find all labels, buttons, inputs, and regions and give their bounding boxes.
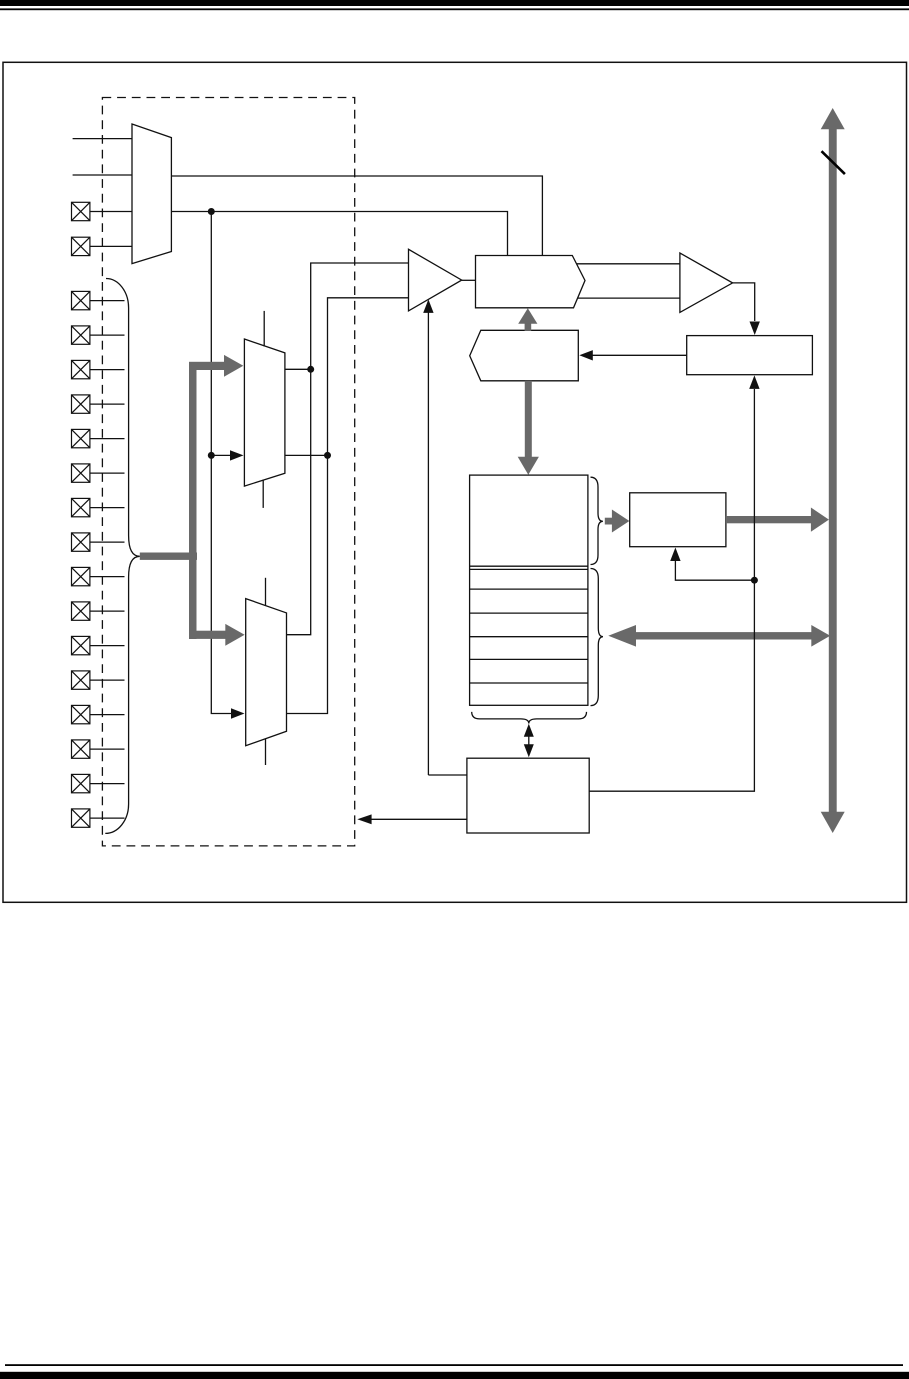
wire control to status register: [589, 389, 754, 791]
pin pad box 5: [72, 360, 125, 378]
arrowhead into mux A lower input: [230, 450, 244, 460]
pin pad box 9: [72, 498, 125, 516]
gray arrow trigger to result stack: [518, 381, 539, 475]
gray double arrow stack to data bus: [608, 625, 830, 647]
dashed module boundary: [102, 98, 354, 846]
page footer thin rule: [5, 1364, 903, 1366]
left pin collection brace: [105, 279, 140, 834]
wire control to buffer enable: [427, 301, 429, 775]
wire mux A output lower: [285, 454, 328, 456]
node dot mux A upper output: [307, 366, 314, 373]
adc core pentagon: [476, 256, 586, 308]
arrowhead into dashed module: [357, 814, 371, 824]
node junction dot mid: [208, 452, 215, 459]
wire input 1 to top mux: [73, 138, 132, 140]
wire adc output lower to comparator: [578, 297, 680, 299]
arrowhead into result register bottom: [670, 548, 680, 562]
brace for top stack cell: [591, 477, 603, 564]
pin pad box 17: [72, 774, 125, 792]
comparator triangle: [680, 253, 733, 312]
wire top mux output upper to pentagon1: [171, 176, 542, 256]
wire status register to trigger pentagon: [592, 354, 687, 356]
node dot on clock line: [751, 577, 758, 584]
page footer thick bar: [0, 1372, 909, 1379]
wire control to module arrow: [370, 818, 467, 820]
arrowhead into status register: [750, 322, 760, 336]
trigger pentagon: [470, 330, 579, 381]
node junction dot on mux output: [208, 208, 215, 215]
pin pad box 2: [72, 237, 90, 255]
arrowhead into trigger pentagon: [579, 350, 593, 360]
pin pad box 1: [72, 202, 90, 220]
brace for lower stack cells: [591, 569, 604, 706]
page header thin rule: [0, 8, 909, 10]
double headed arrow stack to control: [528, 727, 530, 754]
mux A select stub bottom: [262, 480, 264, 508]
wire pin box 2 to top mux: [90, 245, 133, 247]
wire adc output upper to comparator: [577, 263, 680, 265]
wire mux A output upper: [285, 368, 311, 370]
arrowhead up: [524, 724, 534, 737]
pin pad box 8: [72, 464, 125, 482]
mux A trapezoid: [244, 339, 285, 486]
stack row separators: [470, 566, 588, 683]
pin pad box 4: [72, 326, 125, 344]
arrowhead into mux B lower input: [231, 708, 245, 718]
wire vertical channel select line: [211, 212, 240, 714]
gray analog bus from pins: [140, 355, 245, 646]
wire branch to mux A lower input: [211, 454, 240, 456]
node dot mux A lower output: [324, 452, 331, 459]
pin pad box 6: [72, 395, 125, 413]
page header thick bar: [0, 0, 909, 6]
horizontal brace under stack: [472, 712, 587, 724]
gray arrow result register to data bus: [726, 508, 829, 532]
mux B trapezoid: [246, 599, 287, 746]
wire comparator to status register: [733, 283, 755, 321]
control logic rectangle: [467, 758, 589, 833]
wire input 2 to top mux: [73, 174, 132, 176]
result register stack: [470, 475, 588, 705]
status register rectangle: [687, 336, 813, 375]
gray arrow stack to result register: [605, 510, 630, 533]
pin pad box 10: [72, 533, 125, 551]
pin pad box 13: [72, 636, 125, 654]
pin pad box 12: [72, 602, 125, 620]
pin pad box 18: [72, 809, 125, 827]
wire control to buffer enable horizontal: [428, 774, 467, 776]
wire top mux output lower to pentagon1: [171, 212, 507, 256]
gray arrow trigger to adc core: [518, 308, 537, 331]
pin pad box 14: [72, 671, 125, 689]
arrowhead into buffer: [423, 299, 433, 313]
pin pad box 15: [72, 705, 125, 723]
wire pin box 1 to top mux: [90, 211, 133, 213]
mux B select stub bottom: [265, 739, 267, 765]
mux B select stub top: [265, 578, 267, 606]
sample and hold buffer triangle: [409, 249, 462, 311]
arrowhead down: [524, 744, 534, 757]
wire analog bus line 2 to sample hold: [287, 298, 409, 714]
bus width slash: [822, 151, 845, 174]
mux A select stub top: [263, 311, 265, 347]
figure frame: [3, 62, 907, 902]
wire buffer to adc pentagon: [462, 279, 476, 281]
pin pad box 7: [72, 429, 125, 447]
wire analog bus line 1 to sample hold: [287, 263, 409, 635]
wire clock to result register bottom: [675, 561, 754, 580]
top reference mux trapezoid: [132, 124, 171, 264]
result register rectangle: [630, 493, 726, 547]
pin pad box 16: [72, 740, 125, 758]
data bus vertical gray: [821, 108, 845, 833]
pin pad box 3: [72, 291, 125, 309]
pin pad box 11: [72, 567, 125, 585]
arrowhead into status register bottom: [749, 375, 759, 389]
